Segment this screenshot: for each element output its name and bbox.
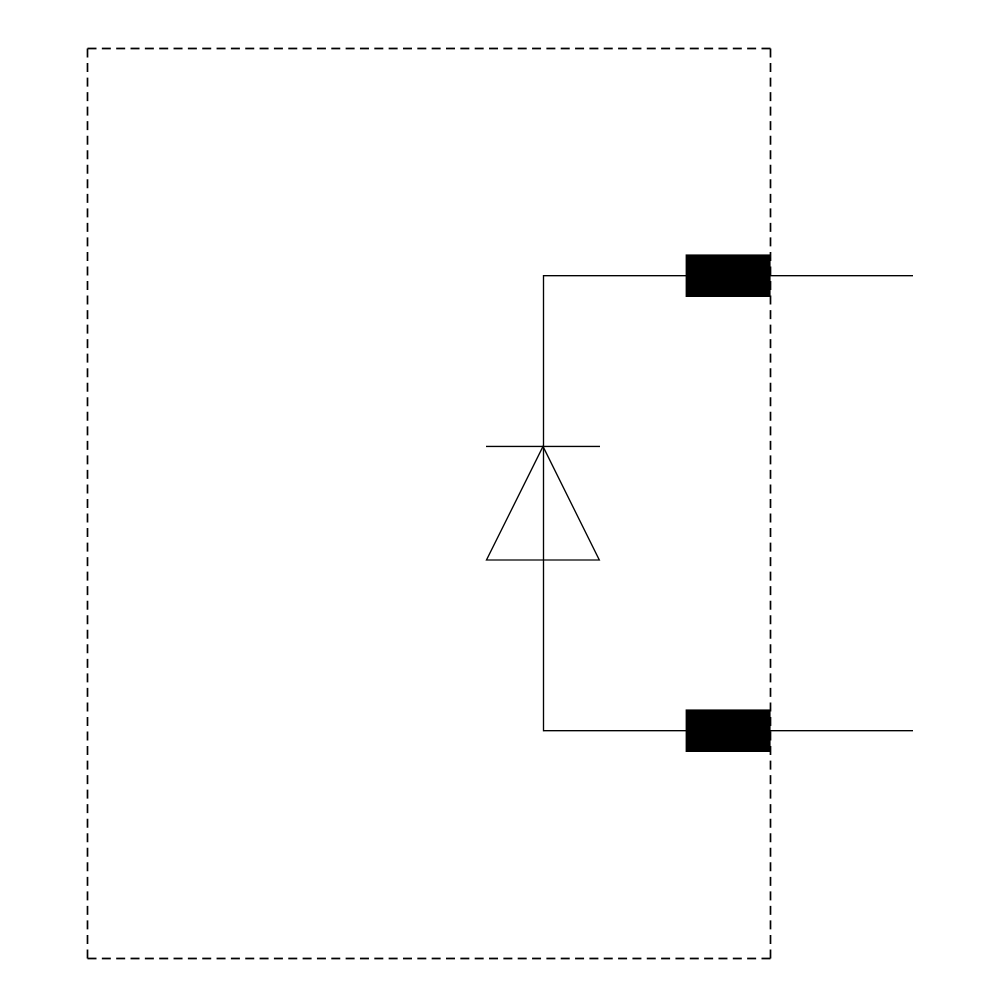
terminal pad (bottom, solid) [686, 709, 771, 752]
enclosure (dashed module boundary) [88, 49, 771, 959]
terminal pad (top, solid) [686, 254, 771, 297]
wire (vertical: diode leads between top and bottom nets) [543, 275, 545, 731]
wire (bottom horizontal: diode anode net to right lead) [544, 730, 914, 732]
wire (top horizontal: diode cathode net to right lead) [544, 275, 914, 277]
diode (cathode bar at top, triangle anode below) [486, 446, 600, 560]
